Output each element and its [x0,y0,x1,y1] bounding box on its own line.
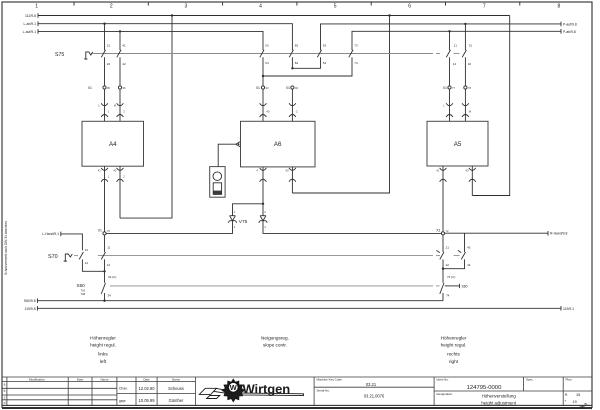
suppressor diode V75 b [259,210,268,229]
svg-text:A4: A4 [109,141,117,148]
svg-text:X1: X1 [256,86,260,90]
terminal X1:77 [443,86,456,90]
svg-text:Höhenregler: Höhenregler [90,335,116,340]
caption middle block [261,335,289,347]
svg-text:93: 93 [266,86,270,90]
column grid ticks [74,2,520,6]
svg-text:C: C [296,109,298,113]
S75 contact 83/84 [289,43,298,68]
svg-text:A5: A5 [454,141,462,148]
svg-text:left: left [100,359,107,364]
wire to V75 diode 2 [262,204,264,216]
S70 contact 13/14 [79,248,104,271]
svg-text:19: 19 [573,399,577,404]
svg-text:1: 1 [35,3,38,9]
sensor/valve B75 body [210,167,225,198]
title block grid [2,377,592,405]
svg-text:97: 97 [107,229,111,233]
svg-text:03.21: 03.21 [366,382,377,387]
svg-text:12: 12 [107,263,111,267]
controller A4 [82,121,144,166]
S60 contact 73/74 right [440,283,450,301]
wire P-ab to right edge [352,31,561,50]
svg-text:7: 7 [483,3,486,9]
svg-text:40: 40 [266,109,270,113]
svg-text:13: 13 [85,248,89,252]
caption left block [90,335,116,364]
svg-text:10.05.99: 10.05.99 [139,398,156,403]
svg-text:S75: S75 [55,52,64,58]
svg-text:41: 41 [436,168,440,172]
wire drop 112 to A5 right pin [472,16,509,196]
S70 contact 11/12 [101,235,110,283]
svg-text:44: 44 [467,263,471,267]
A6 left side plug connector [236,141,241,147]
svg-text:77: 77 [452,86,456,90]
svg-text:v.: v. [565,399,567,403]
wire+plug connector A6 pin2 top [289,89,298,121]
title block texts left [4,377,184,405]
node junction S60 bus [103,300,105,302]
svg-text:X1: X1 [286,86,290,90]
svg-text:X1: X1 [443,86,447,90]
svg-text:12.02.90: 12.02.90 [139,386,156,391]
wire+plug connector A4 pin1 top [98,89,110,121]
svg-text:63: 63 [265,43,269,47]
svg-text:94: 94 [295,86,299,90]
svg-text:height regul.: height regul. [90,343,116,348]
svg-text:S60: S60 [77,283,86,288]
wire L-Hand to S70 contact [61,234,83,250]
svg-text:height adjustment: height adjustment [481,400,516,405]
S75 contact 73/74 [263,43,358,76]
svg-text:73 (C): 73 (C) [447,275,455,279]
svg-text:S60: S60 [462,284,468,288]
wire bus 119 bottom [37,307,561,309]
svg-text:X1: X1 [436,229,440,233]
svg-text:L-auf/9.1: L-auf/9.1 [23,30,36,34]
wire bus 112 [38,15,510,17]
svg-text:7A8: 7A8 [81,292,86,296]
svg-text:d: d [4,401,6,405]
svg-text:Schutzvermerk nach DIN 34 beac: Schutzvermerk nach DIN 34 beachten [4,221,8,275]
svg-text:Scheuss: Scheuss [168,386,184,391]
svg-text:124795-0000: 124795-0000 [467,385,502,391]
svg-text:V75: V75 [239,219,248,225]
wire drop 112 to A4 right pin [120,16,172,219]
switch S75 mechanical link [93,53,460,55]
svg-text:Höhenverstellung: Höhenverstellung [482,394,517,399]
node junction L-ab/contact21 [103,23,105,25]
svg-text:Name: Name [172,377,180,381]
column numbers 1-8 [35,3,560,9]
svg-text:43: 43 [467,245,471,249]
svg-text:S70: S70 [48,254,58,260]
svg-text:Ident-No.: Ident-No. [437,378,450,382]
svg-text:14: 14 [85,261,89,265]
Wirtgen logo swoosh [199,388,303,398]
net label 119/9.8 left [25,306,38,311]
svg-text:60: 60 [286,168,290,172]
net label P-auf/9.8 [561,22,577,27]
svg-text:64: 64 [265,61,269,65]
wire+plug connector A5 pin1 bottom [436,166,446,232]
svg-text:R-Hand/9.8: R-Hand/9.8 [550,232,567,236]
S75 contact 53/54 [292,43,326,68]
svg-text:21: 21 [107,43,111,47]
svg-text:height regul.: height regul. [441,343,467,348]
svg-text:5: 5 [334,3,337,9]
svg-text:Date: Date [77,377,84,381]
svg-text:78: 78 [468,86,472,90]
svg-text:Bl.: Bl. [565,392,568,396]
svg-text:22: 22 [107,62,111,66]
bus 112 net label [25,13,38,18]
node junction under A6 [262,203,264,205]
svg-text:L-Hand/9.1: L-Hand/9.1 [42,232,59,236]
S70 contact 21/22 right [440,235,449,283]
svg-text:links: links [98,352,108,357]
svg-text:95: 95 [107,86,111,90]
caption right block [441,335,467,364]
svg-text:41: 41 [122,43,126,47]
node junction P-ab/contact11 [448,30,450,32]
net label P-ab/9.8 [561,29,576,34]
switch S70 mechanical link [74,255,460,257]
svg-text:Machine Key Code: Machine Key Code [317,378,343,382]
svg-text:Neigungsreg.: Neigungsreg. [261,335,289,340]
svg-text:L-ab/9.1: L-ab/9.1 [24,22,37,26]
terminal X1:95 [88,86,111,90]
S60 link label right [445,284,468,289]
wire+plug connector A5 pin2 bottom [466,166,476,196]
svg-text:2: 2 [110,3,113,9]
svg-text:Designation: Designation [437,392,453,396]
svg-text:112/9.8: 112/9.8 [25,14,36,18]
terminal X1:94 [286,86,299,90]
wire+plug connector A4 pin2 bottom [113,166,125,218]
svg-text:41: 41 [98,168,102,172]
node junction A6 left column [262,75,264,77]
svg-text:42: 42 [122,62,126,66]
switch S70 actuator [64,254,73,261]
node junction S70/S60 left [103,270,105,272]
wire to V75 diode 1 [233,204,264,216]
terminal X1:93 [256,86,269,90]
svg-text:11: 11 [454,43,457,47]
svg-text:119/9.1: 119/9.1 [563,307,574,311]
svg-text:Name: Name [100,377,108,381]
svg-text:a: a [4,383,6,387]
wire A6 left pin to sensor [218,144,236,166]
svg-text:W: W [230,383,237,392]
svg-text:4: 4 [259,3,262,9]
wire V75 b to X1:72 rail [263,221,441,234]
S70 contact 43/44 right [443,233,471,269]
net label L-Hand/9.1 [42,232,61,237]
svg-text:Modification: Modification [29,377,45,381]
svg-text:Date: Date [143,377,150,381]
svg-text:A6: A6 [274,141,282,148]
svg-text:Günther: Günther [169,398,184,403]
svg-text:gepr.: gepr. [119,399,127,403]
wire+plug connector A6 pin2 bottom [286,167,296,193]
terminal X1:97 [98,229,111,235]
svg-text:Chan.: Chan. [119,387,128,391]
svg-text:73: 73 [354,43,358,47]
svg-text:7A2: 7A2 [81,288,86,292]
svg-text:X1: X1 [98,229,102,233]
switch S75 actuator [84,52,93,59]
svg-text:11: 11 [107,245,110,249]
net label S60/9.8 [24,298,38,303]
S75 contact 41/42 [117,31,126,85]
S75 contact 21/22 [101,24,110,86]
title block texts right [317,378,588,406]
contact direction arrows [436,250,461,252]
S60 mechanical link [110,285,440,287]
wire+plug connector A5 pin1 top [443,89,453,121]
svg-text:b: b [4,389,6,393]
svg-text:31: 31 [469,43,473,47]
wire bus L-ab [38,24,292,51]
title block corner diagonal [578,405,592,409]
wire V75 a to X1:97 rail [106,221,232,234]
svg-text:32: 32 [468,62,472,66]
net label R-Hand/9.8 [548,231,567,236]
svg-text:right: right [449,359,459,364]
wire bus S60 bottom [37,300,443,302]
svg-text:8: 8 [558,3,561,9]
node junction P-auf/contact31 [464,23,466,25]
svg-text:72: 72 [446,229,450,233]
svg-text:rechts: rechts [447,352,460,357]
S60 contact 33/34 [101,283,111,301]
svg-text:Wirtgen: Wirtgen [243,382,291,397]
S75 contact 31/32 [462,24,472,86]
svg-text:S60/9.8: S60/9.8 [24,299,36,303]
S75 contact 11/12 [446,31,457,85]
node junction 112/x389 [388,14,390,16]
svg-text:53: 53 [323,43,327,47]
net label 119/9.1 right [561,306,574,311]
controller A5 [427,121,488,166]
suppressor diode V75 a [228,210,237,229]
wire+plug connector A4 pin1 bottom [98,166,110,231]
svg-text:Höhenregler: Höhenregler [441,335,467,340]
controller A6 [241,121,316,167]
svg-text:Spec.: Spec. [526,378,534,382]
wire+plug connector A4 pin2 top [114,89,126,121]
svg-text:40: 40 [113,168,117,172]
svg-text:96: 96 [123,86,127,90]
svg-text:22: 22 [446,263,450,267]
node junction L-auf/contact41 [119,30,121,32]
svg-text:12: 12 [453,62,457,66]
node junction right chain [442,268,444,270]
svg-text:slope contr.: slope contr. [263,343,287,348]
svg-text:54: 54 [323,61,327,65]
svg-text:Plan: Plan [566,378,572,382]
svg-text:119/9.8: 119/9.8 [25,307,36,311]
svg-text:21: 21 [446,245,450,249]
svg-text:34: 34 [108,294,112,298]
svg-text:X1: X1 [88,86,92,90]
svg-text:83: 83 [295,43,299,47]
wire X1:72 to R-Hand label [445,232,548,234]
node junction A6 right column [291,67,293,69]
terminal X1:78 [464,86,472,90]
terminal X1:72 [436,229,449,235]
svg-text:P-ab/9.8: P-ab/9.8 [563,30,576,34]
wire+plug connector A6 pin1 bottom [256,167,266,204]
svg-text:33 (C): 33 (C) [108,275,116,279]
svg-text:40: 40 [466,168,470,172]
wire+plug connector A6 pin1 top [260,89,270,121]
wire+plug connector A5 pin2 top [462,89,472,121]
svg-text:3: 3 [185,3,188,9]
bus L-auf net label [23,29,38,34]
svg-text:Bl.: Bl. [585,402,588,406]
svg-text:P-auf/9.8: P-auf/9.8 [563,22,577,26]
bus L-ab net label [24,21,38,26]
Wirtgen logo gear [222,379,244,402]
svg-text:74: 74 [354,61,358,65]
svg-text:84: 84 [295,61,299,65]
node junction 112/x172 [171,14,173,16]
svg-text:Serial-No.: Serial-No. [317,389,331,393]
wire bus L-auf [38,31,263,50]
svg-text:6: 6 [408,3,411,9]
relay contact S60 label [77,283,86,296]
svg-text:74: 74 [446,294,450,298]
svg-text:03.21.0076: 03.21.0076 [364,394,385,399]
svg-text:15: 15 [576,392,580,397]
terminal X1:96 [118,86,126,90]
wire P-auf to right edge [321,24,562,50]
wire drop 112 to A6 right pin [292,16,389,194]
S75 contact 63/64 [260,43,269,85]
